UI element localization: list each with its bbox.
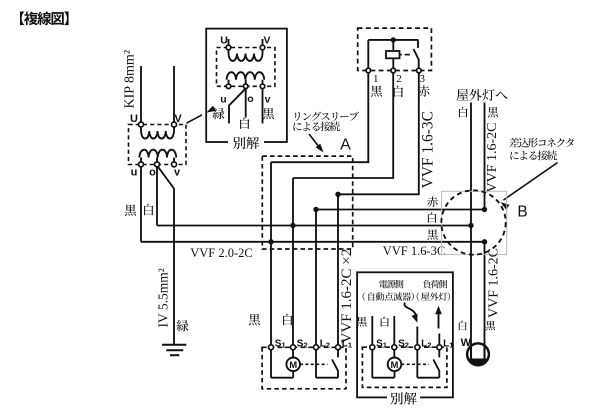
svg-text:VVF 1.6-2C ×2: VVF 1.6-2C ×2 <box>339 249 355 344</box>
svg-text:VVF 2.0-2C: VVF 2.0-2C <box>190 246 253 260</box>
svg-text:S2: S2 <box>398 338 409 349</box>
svg-text:B: B <box>517 204 527 221</box>
svg-text:IV 5.5mm²: IV 5.5mm² <box>156 268 171 327</box>
svg-text:M: M <box>289 360 297 371</box>
svg-text:u: u <box>131 167 138 179</box>
svg-text:M: M <box>391 360 399 371</box>
svg-text:A: A <box>340 137 351 154</box>
svg-text:VVF 1.6-3C: VVF 1.6-3C <box>420 111 437 189</box>
svg-text:L2: L2 <box>421 338 431 349</box>
svg-text:VVF 1.6-2C: VVF 1.6-2C <box>485 122 500 192</box>
svg-text:U: U <box>130 113 138 125</box>
svg-text:v: v <box>174 167 181 179</box>
svg-text:v: v <box>265 94 271 106</box>
svg-text:S1: S1 <box>275 338 286 349</box>
svg-text:S2: S2 <box>297 338 308 349</box>
svg-text:u: u <box>220 94 226 106</box>
svg-text:L1: L1 <box>342 338 352 349</box>
svg-text:S1: S1 <box>376 338 387 349</box>
svg-text:U: U <box>220 35 228 47</box>
svg-text:W: W <box>461 337 472 349</box>
svg-text:VVF 1.6-2C: VVF 1.6-2C <box>487 248 502 318</box>
svg-text:3: 3 <box>420 73 426 85</box>
svg-text:L1: L1 <box>443 338 453 349</box>
svg-text:o: o <box>149 167 156 179</box>
svg-text:VVF 1.6-3C: VVF 1.6-3C <box>383 244 446 258</box>
svg-text:KIP 8mm²: KIP 8mm² <box>123 50 138 109</box>
svg-text:1: 1 <box>373 73 379 85</box>
svg-text:L2: L2 <box>320 338 330 349</box>
svg-text:o: o <box>247 93 253 105</box>
svg-text:2: 2 <box>396 73 402 85</box>
svg-text:V: V <box>263 35 270 47</box>
